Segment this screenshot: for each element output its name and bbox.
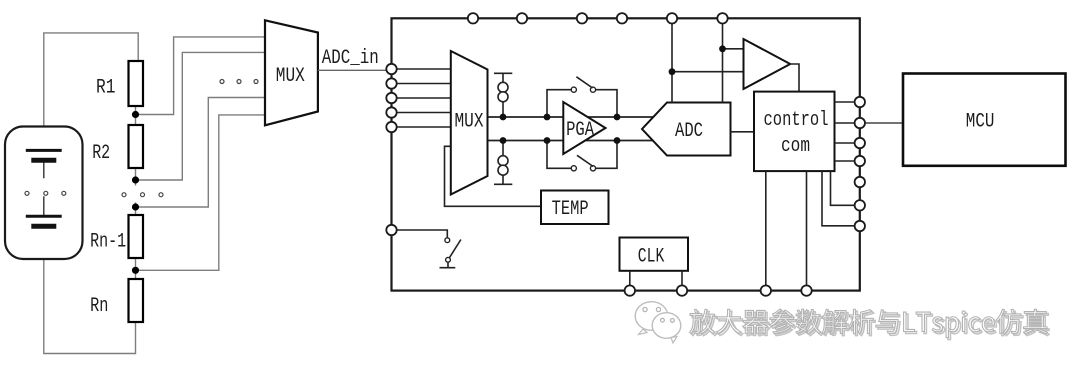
switch S1 xyxy=(571,87,576,92)
mux1 input ellipsis dots xyxy=(220,80,224,84)
MUX1 trapezoid xyxy=(265,20,318,125)
control bottom wires xyxy=(766,171,807,291)
top pins xyxy=(468,13,478,23)
resistor Rn-1 xyxy=(129,215,144,258)
battery cell 2 xyxy=(43,196,45,216)
wire ADC to control xyxy=(731,131,755,133)
svg-text:ADC: ADC xyxy=(675,120,703,143)
battery pack outline xyxy=(5,127,83,260)
right pins xyxy=(855,97,865,107)
switch S2 xyxy=(571,166,576,171)
watermark logo eyes xyxy=(643,307,674,322)
left pins xyxy=(386,64,396,74)
junction node2 xyxy=(132,176,139,183)
current source top xyxy=(494,73,512,117)
wire comparator input top xyxy=(723,48,744,50)
CLK box xyxy=(620,238,689,271)
junction node1 xyxy=(132,111,139,118)
svg-text:CLK: CLK xyxy=(638,246,665,269)
svg-text:TEMP: TEMP xyxy=(552,198,589,221)
resistor R1 xyxy=(129,61,144,106)
battery cell 1 xyxy=(43,150,45,178)
wire comparator out to control xyxy=(790,64,800,92)
wire signal lower rail xyxy=(488,140,655,142)
svg-text:R1: R1 xyxy=(96,77,116,100)
svg-text:MUX: MUX xyxy=(455,111,484,134)
ADC hexagon xyxy=(642,103,731,156)
svg-text:PGA: PGA xyxy=(566,119,594,142)
PGA triangle xyxy=(563,102,605,154)
wire node1 (R1/R2) to MUX in1 xyxy=(136,37,266,115)
svg-text:R2: R2 xyxy=(92,142,110,165)
wire battery bottom to Rn bottom xyxy=(44,228,136,354)
comparator triangle xyxy=(744,39,791,89)
junction dots on rails xyxy=(500,114,507,121)
junction node3 xyxy=(132,203,139,210)
battery dots xyxy=(25,191,29,195)
test switch wire xyxy=(392,230,448,238)
TEMP box xyxy=(541,191,609,225)
AFE chip outline xyxy=(392,18,860,290)
svg-text:com: com xyxy=(781,135,810,158)
svg-text:ADC_in: ADC_in xyxy=(322,47,379,70)
wire vertical feedback right xyxy=(722,18,724,102)
svg-text:Rn: Rn xyxy=(90,295,108,318)
CLK wires to bottom pins xyxy=(630,271,682,291)
wire signal upper rail xyxy=(488,116,655,118)
wire battery top to R1 xyxy=(44,33,138,150)
wire ADC_in xyxy=(318,69,392,71)
MCU box xyxy=(903,74,1066,166)
mux2 input wires from left pins xyxy=(392,69,451,127)
resistor Rn xyxy=(129,279,144,322)
control right wires to pins xyxy=(835,102,860,161)
control box xyxy=(754,92,835,172)
junction dot fb left xyxy=(669,68,676,75)
wire resistor chain verticals xyxy=(135,106,137,125)
chain ellipsis dots xyxy=(122,193,126,197)
svg-text:control: control xyxy=(764,109,829,132)
wire to MCU xyxy=(860,122,903,124)
bottom pins xyxy=(625,285,635,295)
chopper loop bottom xyxy=(547,141,617,169)
current source bottom xyxy=(494,141,512,185)
chopper loop top xyxy=(547,90,617,117)
svg-text:MUX: MUX xyxy=(276,65,305,88)
junction dot fb right xyxy=(719,45,726,52)
junction node4 xyxy=(132,267,139,274)
test switch xyxy=(445,238,450,243)
svg-text:Rn-1: Rn-1 xyxy=(90,231,126,254)
wire comparator input bottom xyxy=(672,71,744,73)
wire vertical feedback left (pin to ADC top) xyxy=(671,18,673,102)
MUX2 trapezoid xyxy=(451,51,488,195)
wire node3 to MUX in3 xyxy=(136,98,266,208)
wire node4 (Rn-1/Rn) to MUX in4 xyxy=(136,115,266,270)
wire node2 (R2 bottom) to MUX in2 xyxy=(136,52,266,180)
resistor R2 xyxy=(129,125,144,168)
svg-text:MCU: MCU xyxy=(966,111,995,134)
watermark logo bubbles xyxy=(635,302,681,343)
wire TEMP to mux2 xyxy=(445,146,542,206)
